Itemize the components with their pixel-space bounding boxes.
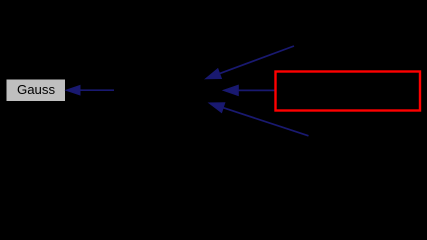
edge E4: bottom-right node to center node (wire): [209, 103, 309, 136]
svg-text:Gauss: Gauss: [17, 82, 56, 97]
node current (red border box, truncated relations): [276, 72, 421, 111]
node Gauss (current class, gray filled box): [7, 80, 66, 102]
edge E1: center node to Gauss (wire): [66, 86, 114, 95]
edge E2: red node to center node (wire): [223, 85, 275, 95]
edge E3: top-right node to center node (wire): [206, 46, 295, 79]
